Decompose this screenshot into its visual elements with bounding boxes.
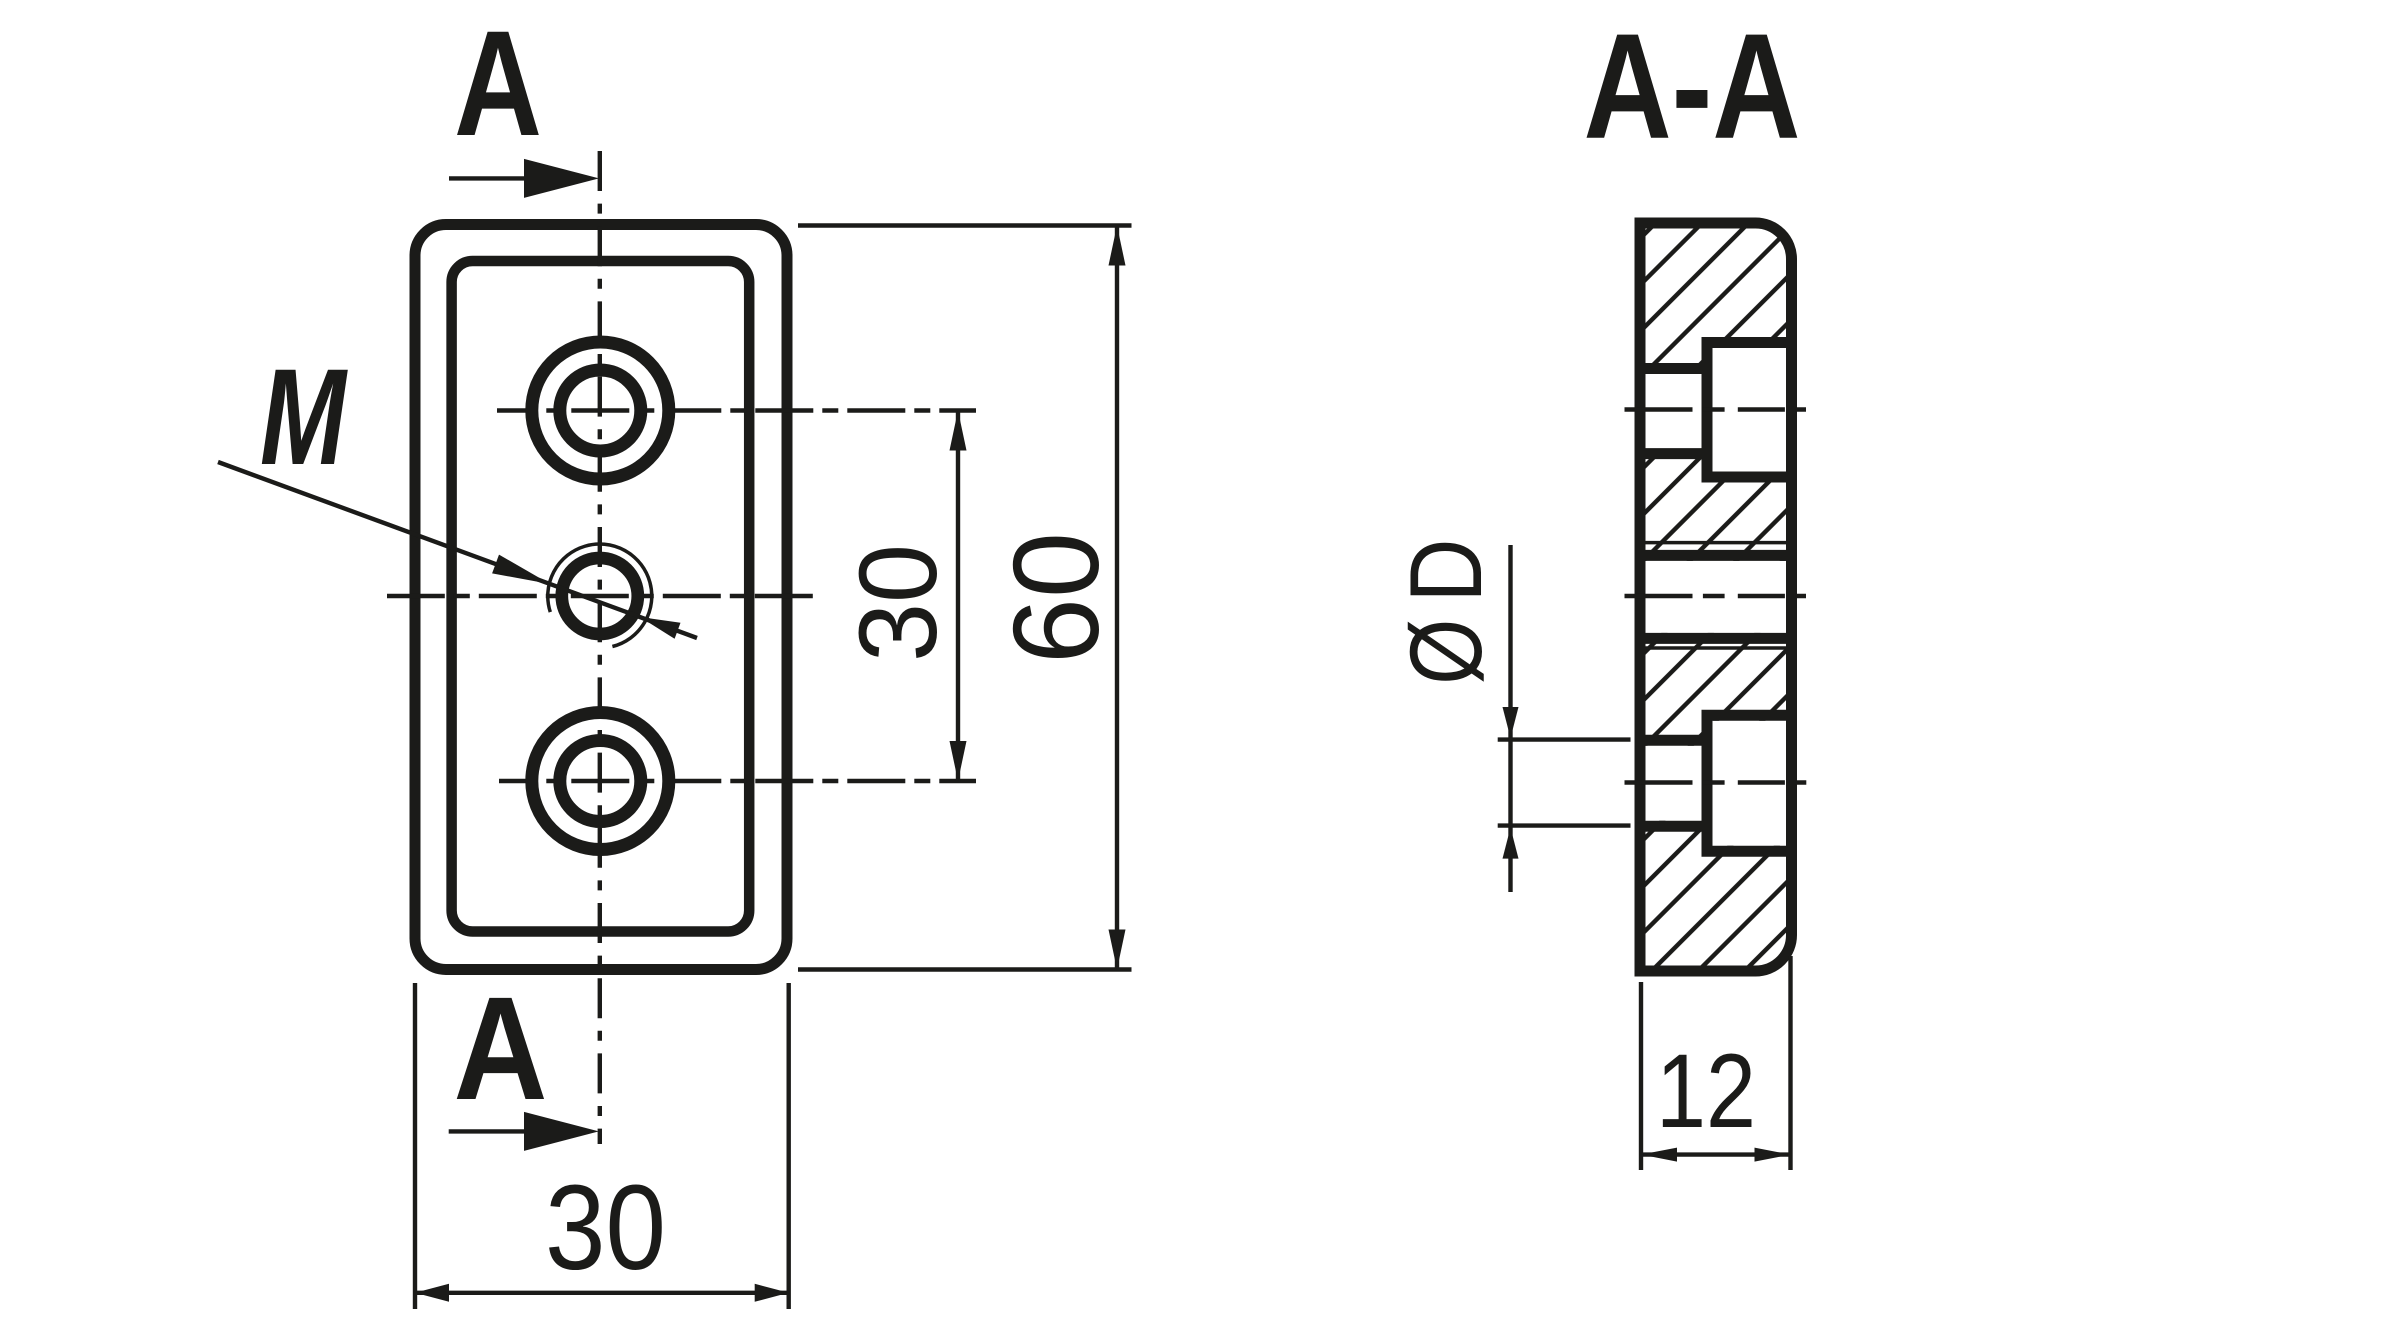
plate outer outline: [415, 225, 787, 970]
middle hole top edge: [1640, 550, 1792, 561]
bottom hole centerline: [499, 779, 976, 783]
top hole bore cutout: [1640, 374, 1707, 449]
dimension line 12: [1641, 1152, 1791, 1156]
svg-text:A: A: [454, 967, 548, 1131]
middle hole thread line bottom: [1645, 646, 1786, 650]
svg-text:30: 30: [837, 544, 960, 662]
middle hole cutout: [1640, 561, 1792, 633]
extension line OD bottom: [1498, 823, 1631, 827]
plate inner face outline: [452, 261, 750, 932]
leader arrow upper: [492, 555, 550, 584]
bottom hole bore circle: [560, 741, 641, 822]
middle tapped hole circle: [562, 558, 638, 634]
extension line 12 right: [1788, 956, 1792, 1170]
top hole counterbore outline: [1707, 343, 1792, 478]
svg-text:M: M: [260, 341, 348, 494]
extension line 12 left: [1639, 982, 1643, 1170]
middle hole centerline: [387, 594, 815, 598]
middle hole bottom edge: [1640, 633, 1792, 644]
extension line top 60: [798, 223, 1132, 227]
section middle hole centerline: [1625, 594, 1807, 598]
extension line bottom-30 left: [413, 983, 417, 1309]
middle hole thread arc: [548, 544, 652, 646]
extension line bottom-30 right: [787, 983, 791, 1309]
svg-text:30: 30: [545, 1159, 666, 1295]
bottom hole bore cutout: [1640, 746, 1707, 821]
bottom hole counterbore cutout: [1707, 721, 1792, 846]
section body outline: [1640, 223, 1792, 971]
top hole bore circle: [560, 370, 641, 451]
svg-text:A: A: [454, 0, 542, 167]
bottom hole counterbore circle: [532, 713, 669, 850]
svg-text:A-A: A-A: [1584, 2, 1801, 170]
dimension line bottom 30: [415, 1291, 789, 1295]
top hole bore bottom edge: [1640, 448, 1707, 459]
section arrow top: [449, 176, 527, 180]
svg-text:D: D: [1389, 539, 1503, 603]
top hole counterbore cutout: [1707, 348, 1792, 472]
svg-text:60: 60: [988, 532, 1124, 664]
svg-text:12: 12: [1656, 1033, 1756, 1150]
leader arrow lower: [640, 617, 681, 639]
extension line bottom 60: [798, 967, 1132, 971]
top hole counterbore circle: [532, 342, 669, 479]
section top hole centerline: [1625, 407, 1807, 411]
dimension line OD: [1508, 545, 1512, 892]
vertical centerline: [598, 151, 602, 1144]
leader line M: [218, 462, 697, 638]
top hole bore top edge: [1640, 363, 1707, 374]
svg-text:Ø: Ø: [1389, 619, 1503, 685]
section body hatching: [1640, 223, 1792, 971]
dimension line 60: [1115, 226, 1119, 970]
bottom hole bore top edge: [1640, 735, 1707, 746]
extension line OD top: [1498, 737, 1631, 741]
section bottom hole centerline: [1625, 780, 1809, 784]
top hole centerline: [497, 408, 976, 412]
bottom hole bore bottom edge: [1640, 821, 1707, 832]
section arrow bottom: [449, 1129, 527, 1133]
bottom hole counterbore outline: [1707, 715, 1792, 851]
dimension line 30 vertical: [956, 411, 960, 782]
middle hole thread line top: [1645, 541, 1786, 545]
